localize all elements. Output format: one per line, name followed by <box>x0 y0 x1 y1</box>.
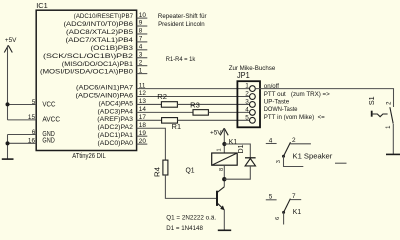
svg-text:PTT in (vom Mike) <=: PTT in (vom Mike) <= <box>264 114 325 121</box>
svg-text:JP1: JP1 <box>237 71 250 80</box>
text title <box>158 13 208 28</box>
wire PA3 to R1 <box>137 119 162 121</box>
wire R2 to JP1 pin3 <box>177 103 249 105</box>
svg-text:(ADC2)PA2: (ADC2)PA2 <box>98 124 134 131</box>
svg-text:K1: K1 <box>229 139 238 146</box>
transistor Q1 <box>186 167 225 210</box>
pin PB0 stub pin1 <box>40 67 147 75</box>
wire R4 to Q1 base <box>165 175 216 198</box>
svg-text:2: 2 <box>139 59 143 66</box>
svg-text:S1: S1 <box>369 96 376 105</box>
svg-text:5: 5 <box>245 114 249 121</box>
op-amp IC1 ATtiny26 box <box>36 1 136 160</box>
pin PA4 label pin14 <box>98 106 147 115</box>
wire PA4 to R3 <box>137 111 193 113</box>
ground symbol left <box>2 158 14 160</box>
pin GND pin6 wire <box>8 129 55 138</box>
relay contact K1 <box>266 193 301 224</box>
svg-text:7: 7 <box>139 36 143 43</box>
svg-text:K1: K1 <box>293 207 301 216</box>
svg-text:(MISO/DO/OC1A)PB1: (MISO/DO/OC1A)PB1 <box>62 61 134 68</box>
ground symbol right <box>386 153 400 155</box>
svg-text:4: 4 <box>139 44 143 51</box>
svg-text:(ADC9/INT0/T0)PB6: (ADC9/INT0/T0)PB6 <box>64 21 134 28</box>
pin PB7 stub pin10 <box>74 12 148 20</box>
svg-text:(ADC8/XTAL2)PB5: (ADC8/XTAL2)PB5 <box>66 29 134 36</box>
svg-text:1: 1 <box>139 67 143 74</box>
svg-text:4: 4 <box>245 106 249 113</box>
svg-text:D1: D1 <box>238 144 245 153</box>
pin PB4 stub pin7 <box>66 36 148 44</box>
node GND junction <box>6 141 10 145</box>
svg-text:VCC: VCC <box>42 99 55 108</box>
svg-text:2: 2 <box>292 137 296 144</box>
wire stub stray <box>335 162 347 164</box>
connector JP1 <box>237 71 260 127</box>
wire PA6 to JP1 pin2 <box>137 96 250 98</box>
svg-text:ATtiny26 DIL: ATtiny26 DIL <box>72 151 105 160</box>
svg-text:Q1 = 2N2222 o.ä.: Q1 = 2N2222 o.ä. <box>166 215 216 222</box>
svg-text:1: 1 <box>217 148 223 151</box>
svg-text:16: 16 <box>28 137 36 144</box>
svg-text:President Lincoln: President Lincoln <box>158 21 205 28</box>
resistor R4 <box>152 160 168 177</box>
resistor R3 <box>190 103 208 115</box>
diode D1 <box>238 144 256 165</box>
wire coil bottom to Q1 collector <box>223 165 225 187</box>
svg-text:15: 15 <box>28 114 36 121</box>
node coil bottom junction <box>222 177 226 181</box>
wire R3 to JP1 pin4 <box>208 111 249 113</box>
svg-text:(ADC0)PA0: (ADC0)PA0 <box>98 140 134 147</box>
svg-text:UP-Taste: UP-Taste <box>264 99 290 106</box>
svg-text:(ADC3)PA4: (ADC3)PA4 <box>98 108 134 115</box>
wire PA5 to R2 <box>137 103 162 105</box>
svg-text:(OC1B)PB3: (OC1B)PB3 <box>91 45 134 52</box>
svg-text:D1 = 1N4148: D1 = 1N4148 <box>166 225 203 232</box>
svg-text:3: 3 <box>139 52 143 59</box>
svg-text:9: 9 <box>139 20 143 27</box>
resistor R1 <box>162 118 182 131</box>
wire +5V to K1 coil <box>223 128 225 153</box>
svg-text:(AREF)PA3: (AREF)PA3 <box>97 116 133 123</box>
svg-text:(ADC7/XTAL1)PB4: (ADC7/XTAL1)PB4 <box>66 37 134 44</box>
svg-text:10: 10 <box>139 12 147 19</box>
svg-text:(ADC4)PA5: (ADC4)PA5 <box>99 100 134 107</box>
node K1 top junction <box>222 142 226 146</box>
svg-text:Zur Mike-Buchse: Zur Mike-Buchse <box>229 65 276 72</box>
svg-text:(ADC5/AIN0)PA6: (ADC5/AIN0)PA6 <box>76 92 134 99</box>
svg-text:K1 Speaker: K1 Speaker <box>293 151 333 160</box>
pin PA0 stub pin20 <box>98 138 148 147</box>
pin JP1-5 <box>245 114 255 123</box>
svg-text:AVCC: AVCC <box>42 115 60 124</box>
pin PB3 stub pin4 <box>91 44 148 52</box>
resistor R2 <box>157 94 177 107</box>
pin JP1-3 <box>245 99 255 108</box>
svg-text:(SCK/SCL/OC1B\)PB2: (SCK/SCL/OC1B\)PB2 <box>43 53 134 60</box>
svg-text:6: 6 <box>275 217 281 220</box>
switch S1 <box>369 96 393 129</box>
svg-text:DOWN-Taste: DOWN-Taste <box>264 106 298 113</box>
svg-text:3: 3 <box>276 160 282 163</box>
wire S1 to ground <box>392 124 394 154</box>
svg-text:+5V: +5V <box>5 37 17 44</box>
wire +5V vertical to AVCC <box>7 46 9 120</box>
wire R1 to JP1 pin5 <box>178 119 250 121</box>
pin AVCC pin15 wire <box>8 114 61 124</box>
svg-text:(MOSI/DI/SDA/OC1A\)PB0: (MOSI/DI/SDA/OC1A\)PB0 <box>40 69 134 76</box>
pin JP1-2 <box>245 91 255 100</box>
wire to D1 top <box>224 144 250 158</box>
svg-text:6: 6 <box>32 129 36 136</box>
node VCC junction <box>6 102 10 106</box>
supply +5V left <box>4 37 17 53</box>
svg-text:PTT out (zum TRX) =>: PTT out (zum TRX) => <box>264 91 330 98</box>
svg-text:1: 1 <box>245 83 249 90</box>
svg-text:2: 2 <box>245 91 249 98</box>
svg-text:R2: R2 <box>157 94 167 101</box>
svg-text:(ADC6/AIN1)PA7: (ADC6/AIN1)PA7 <box>76 85 134 92</box>
wire PA7 to JP1 pin1 <box>137 88 250 90</box>
wire on/off to S1 <box>255 89 393 107</box>
svg-text:+5V: +5V <box>210 130 222 137</box>
pin VCC pin5 wire <box>8 99 56 109</box>
svg-text:R1-R4 = 1k: R1-R4 = 1k <box>166 56 196 63</box>
svg-text:19: 19 <box>139 130 147 137</box>
supply +5V at K1 <box>210 128 228 136</box>
ground symbol Q1 <box>218 229 231 231</box>
svg-text:Repeater-Shift für: Repeater-Shift für <box>158 13 208 20</box>
pin PA6 label pin12 <box>76 90 147 99</box>
wire D1 bottom to junction <box>224 166 250 179</box>
pin PA3 label pin17 <box>97 114 146 123</box>
pin PA2 label pin18 <box>98 122 147 131</box>
svg-text:R3: R3 <box>190 103 200 110</box>
svg-text:(ADC10/RESET\)PB7: (ADC10/RESET\)PB7 <box>74 13 134 20</box>
wire Q1 emitter down <box>223 210 225 230</box>
svg-text:R1: R1 <box>172 124 181 131</box>
relay contact K1 Speaker <box>266 137 333 166</box>
svg-text:8: 8 <box>139 28 143 35</box>
svg-text:R4: R4 <box>152 167 161 177</box>
pin PA7 label pin11 <box>76 82 146 91</box>
pin JP1-1 <box>245 83 255 92</box>
svg-text:20: 20 <box>139 138 147 145</box>
pin PA1 stub pin19 <box>98 130 148 139</box>
svg-text:GND: GND <box>42 135 54 144</box>
svg-text:IC1: IC1 <box>36 1 48 10</box>
pin PB1 stub pin2 <box>62 59 148 67</box>
svg-text:3: 3 <box>245 99 249 106</box>
pin JP1-4 <box>245 106 255 115</box>
pin PB2 stub pin3 <box>43 52 147 60</box>
svg-text:Q1: Q1 <box>186 167 195 174</box>
pin PA5 label pin13 <box>99 98 147 107</box>
wire PA2 pin18 to R4 branch <box>137 128 166 160</box>
pin GND2 pin16 wire <box>8 135 55 144</box>
wire GND vertical <box>7 135 9 159</box>
svg-text:(ADC1)PA1: (ADC1)PA1 <box>98 132 134 139</box>
pin PB5 stub pin8 <box>66 28 147 36</box>
relay coil K1 <box>212 139 238 171</box>
svg-text:5: 5 <box>32 99 36 106</box>
pin PB6 stub pin9 <box>64 20 148 28</box>
